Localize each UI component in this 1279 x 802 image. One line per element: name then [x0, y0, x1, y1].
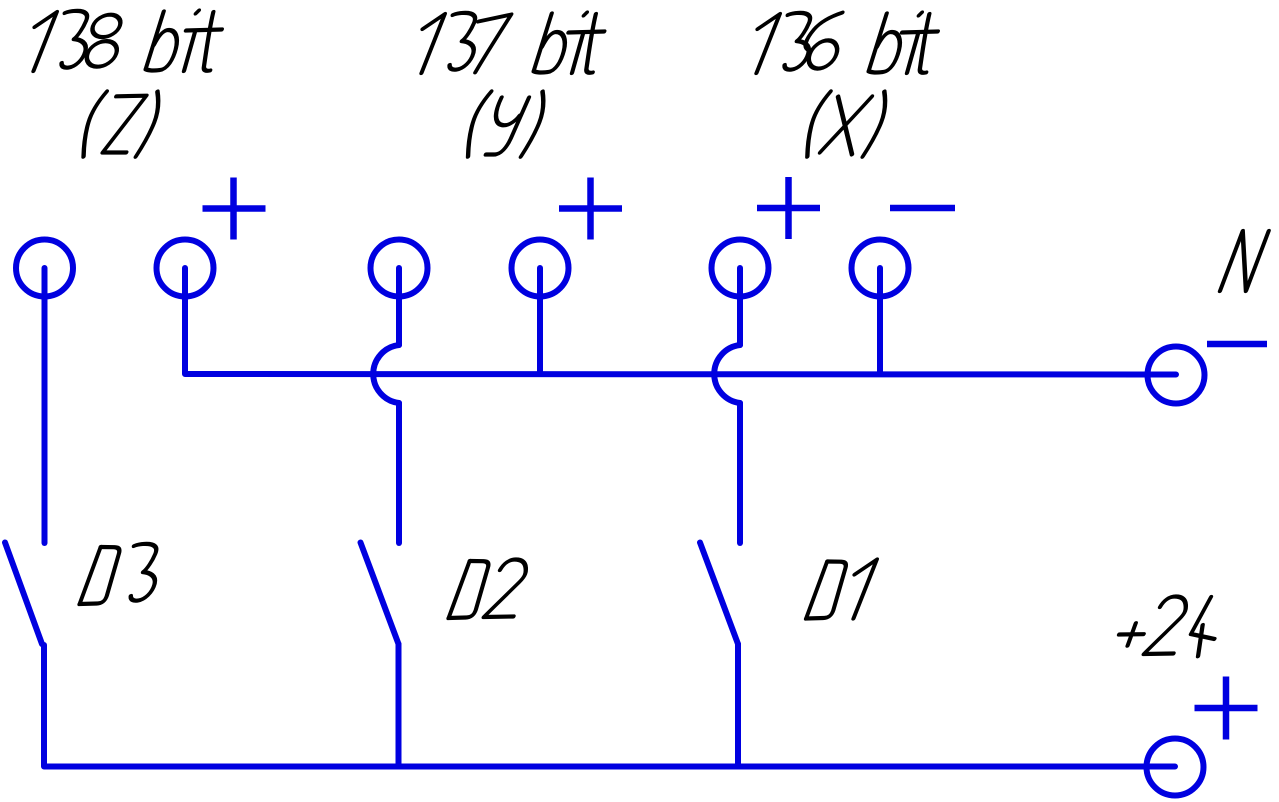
- wire T1 down to switch D3: [42, 268, 48, 543]
- wire T6 down to bus: [877, 268, 883, 374]
- wire T5 down to hop: [737, 268, 743, 345]
- label "D2": [449, 560, 534, 619]
- label "136 bit": [743, 13, 947, 74]
- wire below hop to switch D2: [396, 403, 402, 543]
- label "N": [1220, 231, 1269, 291]
- hop over bus at x=740: [714, 345, 740, 403]
- terminal circle T2: [157, 240, 214, 297]
- wire T4 down to bus: [537, 268, 543, 374]
- terminal circle T5: [712, 240, 769, 297]
- plus at T4: [559, 178, 622, 240]
- switch D3 lower wire + bottom bus to +24: [44, 645, 1175, 767]
- label "138 bit": [20, 11, 231, 72]
- label "D1": [806, 560, 877, 619]
- plus at T5: [757, 177, 820, 239]
- label "D3": [80, 544, 169, 604]
- label "(Z)": [77, 92, 165, 157]
- switch D1 blade: [700, 543, 738, 645]
- switch D1 lower wire: [735, 644, 741, 767]
- label "(Y)": [461, 92, 550, 157]
- switch D3 blade: [5, 543, 42, 645]
- minus at T6: [890, 205, 955, 212]
- terminal circle +24: [1147, 739, 1204, 796]
- label "+24": [1112, 597, 1229, 657]
- label "(X)": [800, 92, 891, 157]
- plus at +24: [1195, 677, 1258, 740]
- label "137 bit": [408, 13, 614, 74]
- terminal circle T4: [512, 240, 569, 297]
- switch D2 blade: [361, 543, 399, 645]
- wire below hop to switch D1: [737, 403, 743, 543]
- wire T2 down and bus to N: [185, 268, 1176, 375]
- terminal circle T1 (138 bit Z): [16, 240, 73, 297]
- minus at N: [1207, 341, 1267, 348]
- terminal circle N: [1148, 347, 1205, 404]
- hop over bus at x=399: [373, 345, 399, 403]
- terminal circle T3: [371, 240, 428, 297]
- terminal circle T6: [852, 240, 909, 297]
- switch D2 lower wire: [396, 644, 402, 767]
- wire T3 down to hop: [396, 268, 402, 345]
- plus at T2: [203, 178, 266, 240]
- polarity marks: [203, 177, 1268, 740]
